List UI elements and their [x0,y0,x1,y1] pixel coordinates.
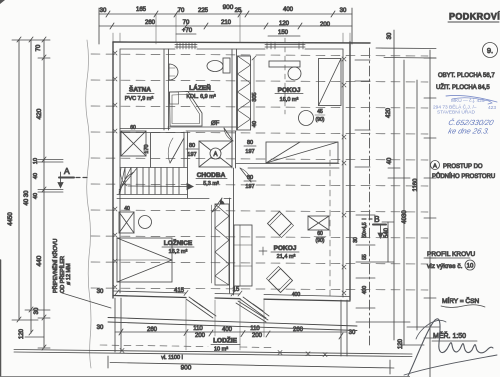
svg-text:440: 440 [36,255,43,266]
svg-text:55: 55 [362,254,368,260]
loggia door swing right [240,297,269,318]
closet under satna (X box) [121,125,146,156]
svg-text:120: 120 [19,328,25,339]
svg-text:260: 260 [147,327,158,333]
svg-text:45: 45 [317,109,323,115]
chodba left wall [183,132,185,167]
pokoj bottom sofa [234,225,252,286]
bottom 900 dim [108,356,394,374]
right dim ticks [355,48,440,345]
svg-text:OD PŘEPÍLER: OD PŘEPÍLER [58,256,66,293]
right outer construction line [429,50,431,377]
svg-text:25: 25 [235,8,242,14]
svg-text:B: B [374,214,380,224]
svg-text:120: 120 [398,338,404,349]
svg-text:260: 260 [293,327,304,333]
bottom wall rooms [113,291,186,293]
svg-text:197: 197 [187,152,196,158]
page bottom edge [0,376,410,377]
svg-text:vl. 1100 l: vl. 1100 l [161,355,183,361]
long dashed construction lines horizontal (roof lines) [91,54,428,290]
pokoj top shelf [269,61,300,67]
svg-text:400: 400 [283,7,294,13]
svg-text:540: 540 [384,227,390,238]
loggia side wall right [340,300,342,356]
pokoj top light circle [288,67,301,80]
loggia stair diagonal left [236,301,268,322]
interior wall satna/lazen [163,49,165,130]
svg-text:MÍRY = ČSN: MÍRY = ČSN [442,296,479,305]
page edge marks [0,0,5,4]
rail tick x marks [120,349,327,357]
svg-text:423: 423 [488,105,496,111]
chodba right wall [231,131,233,168]
svg-text:70: 70 [178,8,185,14]
wall loznice/pokoj vertical [229,198,231,293]
svg-text:UŽIT. PLOCHA 84,5: UŽIT. PLOCHA 84,5 [436,83,490,91]
skylight hatch chodba [199,141,232,167]
svg-text:70: 70 [36,44,42,51]
window W2 top [265,38,305,114]
loznice small x-box [119,206,134,233]
top dim row1 labels [100,7,347,14]
top dim row2 ticks [110,23,302,29]
svg-text:PŮDNÍHO PROSTORU: PŮDNÍHO PROSTORU [432,173,495,180]
section marker B [362,214,386,238]
svg-text:170: 170 [144,144,150,153]
svg-text:10 m²: 10 m² [214,347,228,353]
svg-text:PODKROVÍ: PODKROVÍ [449,12,500,22]
svg-text:CHODBA: CHODBA [197,172,226,179]
left dim line total 4450 [18,40,20,320]
dim slash ticks 415 row [115,290,242,296]
svg-text:MĚŘ. 1:50: MĚŘ. 1:50 [433,331,466,340]
svg-text:21,4 m²: 21,4 m² [277,254,296,260]
right dim line B chain [387,222,389,262]
svg-text:60: 60 [130,125,136,131]
note meritko [432,331,477,341]
top dim row3 +70 [176,28,300,36]
sink lazen [169,64,178,80]
svg-text:420: 420 [36,108,43,119]
in-room vertical dash line pokoj [329,150,331,296]
svg-text:KDL. 6,9 m²: KDL. 6,9 m² [186,94,216,100]
x tick marks on walls [113,51,346,295]
svg-text:ØF: ØF [211,121,220,127]
svg-text:200: 200 [195,333,206,339]
svg-text:LOŽNICE: LOŽNICE [164,238,193,247]
label LAZEN [186,83,216,100]
right dim line chain inner [369,48,371,345]
pokoj-mid bed horizontal [266,142,338,163]
left dim line 4030 [30,40,32,333]
leader line from note to wall [62,293,111,308]
svg-text:ŠATNA: ŠATNA [129,85,151,94]
note miry [441,296,485,308]
svg-text:30: 30 [34,307,40,314]
top dim row2 line [99,25,352,27]
svg-text:210: 210 [221,20,232,26]
svg-text:200: 200 [320,22,331,28]
loznice wardrobe zigzag [215,200,229,285]
svg-text:(90): (90) [316,117,325,123]
svg-text:900: 900 [181,365,192,372]
right dim line 4030 [403,60,405,345]
loznice bed [117,238,172,282]
svg-text:LÁZEŇ: LÁZEŇ [189,83,211,92]
loggia rail / eaves line [14,350,412,355]
label POKOJ top [275,87,303,103]
left dim ticks [12,37,63,350]
svg-text:400: 400 [292,292,301,298]
svg-text:PVC 7,9 m²: PVC 7,9 m² [125,96,154,102]
svg-text:110: 110 [193,326,203,332]
svg-text:150: 150 [278,30,289,36]
bottom dims row [115,300,347,350]
label LODZIE [211,336,240,353]
svg-text:10: 10 [467,264,474,270]
corner extension verticals [113,33,350,43]
svg-text:10: 10 [33,158,39,164]
svg-text:PŘIPEVNĚNÍ KŘOVU: PŘIPEVNĚNÍ KŘOVU [51,239,59,293]
pokoj top bed [319,59,342,106]
svg-text:A: A [64,166,70,176]
svg-text:260: 260 [145,20,156,26]
svg-text:15: 15 [233,287,240,293]
dim 170 vertical [144,133,151,167]
plus mark [259,247,267,255]
svg-text:30: 30 [340,8,347,14]
bath tub [170,92,203,127]
svg-text:420: 420 [386,107,392,118]
blue stamp [433,97,496,135]
svg-text:1160: 1160 [413,178,419,192]
note A prostup [431,161,496,181]
top dim row1 ticks [99,8,352,44]
pokoj bottom x-box [308,216,329,244]
svg-text:120: 120 [279,21,290,27]
svg-text:40: 40 [33,173,39,179]
svg-text:ø 12 MM: ø 12 MM [66,263,72,285]
svg-text:POKOJ: POKOJ [274,245,297,252]
svg-text:200: 200 [252,333,263,339]
svg-text:70: 70 [183,20,190,26]
svg-text:30: 30 [97,325,104,331]
svg-text:PROFIL KROVU: PROFIL KROVU [427,251,475,258]
svg-text:40: 40 [33,193,39,199]
right dim line 30-420-60 [393,30,395,340]
svg-text:A: A [213,152,217,158]
pokoj bottom diamond chair 2 [266,266,292,292]
door loznice (swing) [212,198,222,212]
door pokoj top (swing) [224,128,256,155]
pokoj top table circle [299,109,326,126]
window W1 top [175,42,197,49]
wardrobe dim line [211,205,213,283]
title PODKROVI [448,12,500,23]
closet dim line 305 [253,58,255,128]
section marker A [58,166,88,188]
stairs [119,168,193,195]
pokoj bottom diamond chair 1 [267,211,293,237]
svg-text:80: 80 [189,143,195,149]
svg-text:197: 197 [245,184,254,190]
signature [404,319,497,376]
label POKOJ bottom [271,245,299,260]
lazen bottom wall [168,126,236,128]
loznice circle chair [139,216,152,229]
svg-text:30: 30 [100,8,107,14]
door pokoj bottom (swing) [240,168,256,190]
svg-text:+70: +70 [182,28,193,34]
outer wall left [112,42,114,298]
svg-text:LODŽIE: LODŽIE [213,336,237,345]
outer wall top [113,42,370,43]
svg-text:(90): (90) [316,238,325,244]
blue stamp stroke [446,95,497,102]
svg-text:30: 30 [387,32,393,39]
right dim line 1150 [416,80,418,330]
loggia step line [108,318,357,327]
svg-text:viz výkres č.: viz výkres č. [427,263,463,270]
svg-text:PROSTUP DO: PROSTUP DO [443,164,483,170]
svg-text:400: 400 [222,327,233,333]
door lazen label 80/197 [186,143,198,158]
svg-text:305: 305 [252,92,258,101]
label SATNA [125,85,154,103]
pokoj top closet strip (zigzag) [238,56,251,130]
svg-text:80: 80 [247,140,253,146]
svg-text:ke dne 26.3.: ke dne 26.3. [447,127,490,136]
svg-text:16,2 m²: 16,2 m² [169,249,188,255]
left dim line room chain [43,40,45,348]
svg-text:415: 415 [174,288,185,294]
svg-text:165: 165 [136,7,147,13]
wc lazen [207,58,230,73]
svg-text:5,3 m²: 5,3 m² [203,181,219,187]
svg-text:A: A [433,164,437,170]
svg-text:9.: 9. [487,46,493,55]
right dim labels rotated [353,32,419,349]
svg-text:197: 197 [245,149,254,155]
drawing number circle 9 [483,43,498,58]
loggia door swing left [186,297,216,318]
label LOZNICE [162,238,194,255]
svg-text:110: 110 [250,326,260,332]
svg-text:40: 40 [252,121,258,127]
svg-text:80: 80 [247,175,253,181]
svg-text:40: 40 [387,157,393,164]
wall below stairs [117,194,187,196]
rotated note PRIPEVNENI KROVU [51,239,72,293]
label CHODBA [196,172,227,187]
svg-text:50×4,5: 50×4,5 [362,222,368,238]
note profil krovu [426,251,475,270]
svg-text:OBYT. PLOCHA 56,7: OBYT. PLOCHA 56,7 [438,73,495,79]
door satna (swing) [168,138,184,163]
svg-text:225: 225 [198,8,209,14]
svg-text:4450: 4450 [8,212,14,226]
svg-text:30: 30 [97,289,104,295]
loggia dashed centerline [100,345,208,347]
mid wall right part (pokoj top bottom wall) [236,163,339,165]
satna bottom wall [120,128,170,130]
svg-text:POKOJ: POKOJ [278,87,301,94]
interior wall lazen/pokoj strip [231,49,233,130]
svg-text:30: 30 [349,330,356,336]
svg-text:40: 40 [124,206,130,212]
svg-text:900: 900 [223,4,234,11]
top dim row2 labels [145,20,331,28]
svg-text:60: 60 [317,231,323,237]
crease line (paper fold) [86,40,91,368]
svg-text:16,0 m²: 16,0 m² [280,97,299,103]
loggia side wall left [114,298,116,352]
svg-text:40 30: 40 30 [24,190,30,206]
outer wall right [349,42,351,300]
